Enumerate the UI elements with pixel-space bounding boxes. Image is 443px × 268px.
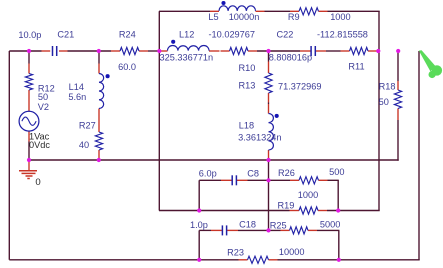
svg-text:8.808016p: 8.808016p [269,53,312,63]
svg-text:L14: L14 [69,82,84,92]
svg-text:50: 50 [38,92,48,102]
svg-text:R23: R23 [227,248,244,258]
svg-text:50: 50 [379,97,389,107]
svg-text:R24: R24 [119,30,136,40]
svg-text:R26: R26 [278,168,295,178]
svg-text:40: 40 [79,140,89,150]
svg-text:60.0: 60.0 [118,62,136,72]
svg-text:1.0p: 1.0p [190,220,208,230]
svg-text:C21: C21 [57,30,74,40]
svg-text:325.336771n: 325.336771n [160,52,214,62]
svg-text:R11: R11 [348,62,364,72]
svg-text:R10: R10 [239,63,256,73]
svg-text:C22: C22 [277,29,294,39]
svg-text:71.372969: 71.372969 [278,81,321,91]
svg-text:0Vdc: 0Vdc [29,140,50,150]
svg-text:V2: V2 [38,102,49,112]
svg-text:5000: 5000 [320,219,340,229]
svg-text:C18: C18 [239,220,256,230]
svg-text:R9: R9 [288,12,300,22]
svg-text:0: 0 [35,177,40,188]
svg-text:3.361324n: 3.361324n [238,132,281,142]
svg-text:6.0p: 6.0p [199,168,217,178]
svg-text:-112.815558: -112.815558 [317,29,368,39]
svg-text:10.0p: 10.0p [18,30,41,40]
svg-text:R13: R13 [239,80,256,90]
svg-text:10000: 10000 [279,247,305,257]
svg-text:L12: L12 [179,30,194,40]
svg-text:C8: C8 [247,168,259,178]
svg-text:L5: L5 [208,12,218,22]
svg-text:10000n: 10000n [229,12,260,22]
svg-text:1000: 1000 [330,12,350,22]
svg-text:R18: R18 [379,81,396,91]
svg-text:R19: R19 [278,200,295,210]
svg-text:-10.029767: -10.029767 [209,30,256,40]
svg-text:500: 500 [329,167,344,177]
svg-text:L18: L18 [239,121,254,131]
svg-text:R27: R27 [79,121,96,131]
svg-text:R25: R25 [270,220,287,230]
svg-text:5.6n: 5.6n [68,92,86,102]
svg-text:1000: 1000 [298,190,318,200]
